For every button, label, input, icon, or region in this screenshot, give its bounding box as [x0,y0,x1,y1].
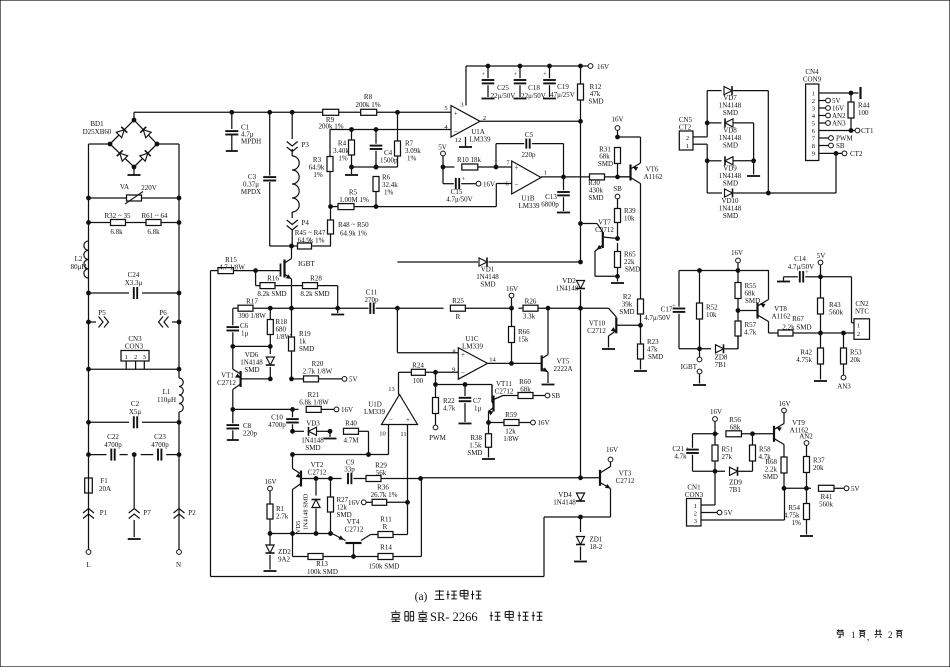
resistor R55 [735,271,760,311]
svg-text:C2712: C2712 [616,477,635,485]
wire CN5 pin1 [693,144,707,161]
wire R5 rail to U1B pin6 [376,184,512,207]
resistor R37 [804,457,826,489]
svg-text:110μH: 110μH [157,396,176,404]
svg-text:R26: R26 [525,298,537,306]
svg-text:1N4148: 1N4148 [556,285,579,293]
terminal 16V rail [588,63,609,71]
svg-text:L: L [86,561,90,569]
svg-text:1.00M 1%: 1.00M 1% [339,196,369,204]
wire 5V node to CN2 pin1 [819,275,854,323]
svg-text:P6: P6 [159,309,167,317]
transistor VT4 C2712 [332,518,378,557]
wire VT2 emitter to R13 [293,534,309,557]
svg-text:4700p: 4700p [268,421,286,429]
svg-text:R13: R13 [316,560,328,568]
svg-text:BD1: BD1 [90,120,104,128]
svg-text:16V: 16V [710,408,722,416]
capacitor C23 [132,433,181,461]
terminal 16V R59 [531,419,550,427]
connector CN5 CT2 [679,116,693,150]
resistor R29 [366,462,423,482]
wire main comparator line [233,306,609,310]
svg-text:2: 2 [888,630,893,640]
svg-text:SMD: SMD [723,109,738,117]
page footer [837,630,903,643]
plug P7 [128,509,151,540]
resistor R39 [615,207,637,239]
svg-text:6.8k: 6.8k [147,228,160,236]
svg-text:5V: 5V [851,485,860,493]
svg-text:SB: SB [552,392,561,400]
svg-text:16V: 16V [611,116,623,124]
capacitor C11 [365,289,380,314]
resistor R22 [433,372,456,425]
terminal 5V R41 [844,485,859,493]
wire CN1 pin3 [701,488,785,520]
svg-text:2222A: 2222A [553,365,572,373]
svg-text:100: 100 [858,109,869,117]
svg-text:47μ/25V: 47μ/25V [550,91,575,99]
svg-text:4.7k: 4.7k [744,329,757,337]
resistor R7 [395,112,422,167]
svg-text:1N4148: 1N4148 [553,499,576,507]
svg-text:1μ: 1μ [474,405,482,413]
terminal 5V CN4 [819,97,841,105]
caption line 1 and 2 [391,590,542,625]
svg-text:20k: 20k [813,464,824,472]
capacitor C15 [443,167,476,204]
diode VD4 [553,491,585,507]
resistor R52 [697,271,719,349]
transistor VT9 A1162 [774,413,809,457]
resistor R54 [784,488,813,536]
resistor R1 [267,504,289,534]
wire ZD9 rail [693,469,726,473]
diode VD2 [556,277,585,293]
svg-text:1%: 1% [338,155,348,163]
resistor R18 [267,308,291,346]
transistor VT6 A1162 [616,137,663,300]
svg-text:220V: 220V [141,184,157,192]
svg-text:SMD: SMD [723,212,738,220]
diode VD9 [705,156,760,187]
terminal SB CN4 [819,142,845,150]
svg-text:P3: P3 [302,141,310,149]
svg-text:SMD: SMD [299,345,314,353]
capacitor C24 [87,271,181,299]
svg-text:3: 3 [694,518,697,525]
svg-text:C24: C24 [128,271,140,279]
terminal 5V [438,144,447,168]
svg-text:CON3: CON3 [685,491,704,499]
resistor R59 [503,411,530,443]
svg-text:5V: 5V [438,144,447,152]
resistor R30 [588,174,630,202]
wire 16V rail [466,64,588,68]
terminal SB VT7 [613,185,622,209]
wire U1D pin11 [407,425,409,502]
svg-text:C2712: C2712 [308,469,327,477]
svg-text:A1162: A1162 [644,173,663,181]
svg-text:5: 5 [444,105,447,112]
svg-text:C17: C17 [661,306,673,314]
diode VD7 [707,86,768,123]
terminal L [86,550,91,569]
resistor R10 [441,156,496,170]
svg-text:AN3: AN3 [837,383,851,391]
svg-text:SMD: SMD [723,180,738,188]
capacitor C3 [241,112,276,246]
svg-text:8: 8 [452,349,455,356]
resistor R5 [330,189,376,210]
svg-text:VD3: VD3 [306,420,320,428]
svg-text:P2: P2 [188,509,196,517]
svg-text:200k 1%: 200k 1% [355,101,380,109]
terminal 16V R56 [710,408,722,434]
resistor R28 [292,275,338,309]
svg-text:560k: 560k [819,501,834,509]
inductor L2 [71,241,89,278]
capacitor C8 [227,409,258,440]
svg-text:R40: R40 [345,420,357,428]
svg-text:5V: 5V [724,509,733,517]
svg-text:MPDX: MPDX [241,188,261,196]
svg-text:SB: SB [613,185,622,193]
svg-text:+: + [461,351,465,359]
svg-text:20k: 20k [850,356,861,364]
svg-text:26.7k 1%: 26.7k 1% [371,491,398,499]
wire right rail lower [178,412,180,508]
resistor R67 labels [782,315,811,332]
svg-text:16V: 16V [606,446,618,454]
svg-text:16V: 16V [538,419,550,427]
wire CN4 pin9 CT2 [819,150,863,158]
terminal AN3 CN4 [819,120,846,128]
svg-text:1%: 1% [407,155,417,163]
wire bridge right [157,144,179,198]
svg-text:LM339: LM339 [364,408,386,416]
wire VT2 base row [301,477,342,481]
transistor VT7 C2712 [595,219,619,277]
resistor R66 [509,308,531,363]
svg-text:SMD: SMD [625,266,640,274]
svg-text:68k: 68k [730,424,741,432]
resistor R26 [523,298,538,321]
svg-text:10k: 10k [706,311,717,319]
svg-text:SMD: SMD [648,353,663,361]
svg-text:16V: 16V [348,499,360,507]
svg-text:5V: 5V [349,376,358,384]
terminal 16V C15 [476,181,495,189]
capacitor C5 feedback [496,131,564,177]
svg-text:7B1: 7B1 [729,486,741,494]
svg-text:3.3k: 3.3k [523,313,536,321]
svg-text:220p: 220p [522,151,537,159]
svg-text:2: 2 [857,331,860,338]
svg-text:R17: R17 [246,298,258,306]
svg-text:2: 2 [812,98,815,105]
svg-text:18-2: 18-2 [590,543,603,551]
terminal SB R60 [545,392,560,400]
capacitor C2 [87,400,181,428]
svg-text:2.7k: 2.7k [276,513,289,521]
terminal AN2 CN4 [819,112,846,120]
svg-text:1N4148 SMD: 1N4148 SMD [303,493,310,530]
svg-text:N: N [176,561,181,569]
svg-text:150k SMD: 150k SMD [369,563,400,571]
svg-text:13: 13 [388,386,395,393]
svg-text:R14: R14 [380,544,392,552]
svg-text:−: − [515,181,519,189]
svg-text:1: 1 [544,170,547,177]
terminal 5V CN1 [701,509,733,517]
svg-text:3: 3 [143,354,146,361]
capacitor C18 [514,66,546,100]
wire R15 left column [210,271,212,577]
resistor R56 labels [729,416,741,432]
wire VT4 base row [268,532,332,536]
wire U1D output to R24 [399,372,412,394]
ground bridge [128,167,141,175]
ground VD3 [324,429,337,438]
svg-text:10: 10 [379,431,386,438]
svg-text:C2712: C2712 [345,526,364,534]
svg-text:C2: C2 [131,400,140,408]
svg-text:16V: 16V [483,181,495,189]
connector CN2 NTC [854,300,870,339]
resistor R42 [796,333,827,381]
fuse F1 [85,476,111,493]
svg-text:33p: 33p [344,466,355,474]
svg-text:C2712: C2712 [217,379,236,387]
transistor VT1 C2712 [217,346,293,409]
svg-text:2: 2 [694,511,697,518]
transistor VT8 A1162 [736,271,791,334]
svg-text:−: − [389,416,393,424]
svg-text:,: , [867,632,869,642]
capacitor C19 [543,66,575,99]
svg-text:22μ/50V: 22μ/50V [491,92,516,100]
resistor R53 [841,333,863,375]
svg-text:SMD: SMD [588,194,603,202]
svg-text:C19: C19 [557,83,569,91]
svg-text:L1: L1 [163,388,171,396]
svg-text:P7: P7 [143,509,151,517]
svg-text:SMD: SMD [244,366,259,374]
resistor R43 [818,277,844,333]
svg-text:VD5: VD5 [295,521,302,534]
svg-text:SMD: SMD [480,281,495,289]
zener ZD9 [729,461,752,494]
bridge rectifier BD1 [83,118,159,169]
heating coil P3-P4 [292,149,299,218]
resistor R20 [292,360,343,382]
plug P3 [287,112,310,151]
wire VT9 base rail [693,431,775,437]
plug P2 [174,508,197,550]
varistor VA [87,183,181,204]
svg-text:NTC: NTC [855,308,869,316]
terminal 16V R36 [348,484,409,508]
svg-text:SMD: SMD [588,98,603,106]
capacitor C6 [227,308,249,346]
svg-text:SMD: SMD [619,308,634,316]
resistor R32~35 [87,212,131,236]
svg-text:80μH: 80μH [71,263,87,271]
wire U1D pin10 row [291,425,389,457]
transistor VT3 C2712 [581,462,635,517]
svg-text:8.2k SMD: 8.2k SMD [257,290,286,298]
plug P1 [83,493,108,550]
wire 16V branch [616,135,641,139]
svg-text:4.75k: 4.75k [796,356,812,364]
resistor R24 [411,362,458,386]
svg-text:LM339: LM339 [519,202,541,210]
svg-text:1%: 1% [792,519,802,527]
transistor VT2 C2712 [293,455,327,534]
svg-text:C14: C14 [794,255,806,263]
svg-text:−: − [461,369,465,377]
zener ZD2 [264,534,292,572]
resistor R2 [619,293,643,325]
svg-text:+: + [515,164,519,172]
svg-text:270p: 270p [365,296,380,304]
svg-text:P4: P4 [302,219,310,227]
wire IGBT sense bottom [679,347,711,351]
svg-text:R48 ~ R50: R48 ~ R50 [338,221,369,229]
svg-text:CON3: CON3 [125,343,144,351]
terminal N [176,550,181,569]
wire bridge left [89,144,111,198]
svg-text:AN2: AN2 [799,433,813,441]
svg-text:3: 3 [460,102,463,109]
terminal 16V CN4 [819,105,844,113]
svg-text:1: 1 [686,143,689,150]
terminal 16V VT9 [778,400,790,413]
svg-text:390 1/8W: 390 1/8W [238,312,266,320]
wire CN1 pin1 [701,471,715,505]
wire CN3 bottom [87,367,181,371]
svg-text:R28: R28 [310,275,322,283]
resistor R19 [289,308,315,379]
resistor R12 [578,66,604,121]
transistor VT5 2222A [542,308,573,384]
capacitor C13 [541,177,570,213]
svg-text:8.2k SMD: 8.2k SMD [300,290,329,298]
svg-text:16V: 16V [597,63,609,71]
svg-text:2: 2 [686,135,689,142]
wire CN4 pin1 [819,87,861,99]
svg-text:C18: C18 [528,84,540,92]
resistor R38 [467,423,495,460]
svg-text:(a): (a) [415,591,428,603]
svg-text:C22: C22 [107,433,119,441]
svg-text:4.7k: 4.7k [674,453,687,461]
wire right rail [178,198,180,378]
resistor R21 [299,391,334,412]
svg-text:F1: F1 [100,477,108,485]
resistor R31 [598,146,621,177]
svg-text:R61 ~ 64: R61 ~ 64 [142,212,168,220]
svg-text:VA: VA [120,183,129,191]
wire bridge top to rail [133,112,135,120]
resistor R23 [634,323,663,371]
svg-text:11: 11 [400,431,406,438]
svg-text:100k SMD: 100k SMD [307,568,338,576]
resistor R17 [238,298,266,321]
svg-text:R32 ~ 35: R32 ~ 35 [105,212,131,220]
svg-text:SB: SB [836,142,845,150]
svg-text:CT2: CT2 [850,150,863,158]
terminal 16V R1 [264,478,276,504]
node wire R4-C4-R7 [350,165,398,169]
terminal PWM [429,425,447,442]
IGBT gate jumper [681,349,706,385]
svg-text:R67: R67 [792,315,804,323]
resistor R4 [333,130,354,168]
svg-text:L2: L2 [75,255,83,263]
connector CN4 CON9 [803,68,822,161]
diode VD8 [705,118,753,160]
svg-text:1%: 1% [313,171,323,179]
svg-text:6.8k 1/8W: 6.8k 1/8W [299,399,329,407]
op-amp U1D [364,386,418,438]
wire VT1 emitter row [231,408,299,412]
resistor R14 [354,479,422,571]
terminal 5V R20 [342,376,357,384]
svg-text:16V: 16V [264,478,276,486]
svg-text:64.9k 1%: 64.9k 1% [340,230,367,238]
svg-text:22μ/50V: 22μ/50V [521,92,546,100]
svg-text:IGBT: IGBT [298,260,315,268]
wire VT1 collector node [231,345,272,349]
svg-text:15k: 15k [518,336,529,344]
wire R15 to IGBT gate [254,269,281,273]
resistor R41 labels [819,493,834,509]
svg-text:1: 1 [812,91,815,98]
wire VT7 base [579,222,603,232]
svg-text:2.7k 1/8W: 2.7k 1/8W [303,368,333,376]
wire VT8 collector row [769,330,855,336]
svg-text:16V: 16V [731,249,743,257]
resistor R11 [378,502,408,537]
terminal AN3 [837,375,851,390]
ground R4 node [345,167,358,175]
wire VT11 emitter [487,421,504,425]
IGBT [281,246,316,308]
zener ZD8 [715,337,738,370]
svg-text:12: 12 [455,137,462,144]
svg-text:4.7 1/8W: 4.7 1/8W [219,263,245,271]
svg-text:CT2: CT2 [679,124,692,132]
resistor R44 [848,93,870,131]
wire R22 branch to VT11 [436,383,494,402]
svg-text:220p: 220p [243,430,258,438]
capacitor C21 [672,434,698,472]
plug P5 [87,309,109,328]
resistor R60 [518,378,545,398]
svg-text:+: + [406,416,410,424]
capacitor C17 [644,271,685,349]
svg-text:6.8k: 6.8k [110,228,123,236]
svg-text:16V: 16V [778,400,790,408]
svg-text:R16: R16 [267,275,279,283]
resistor R8 [355,93,380,115]
resistor R6 [373,165,398,208]
svg-text:P5: P5 [98,309,106,317]
svg-text:PWM: PWM [429,434,447,442]
